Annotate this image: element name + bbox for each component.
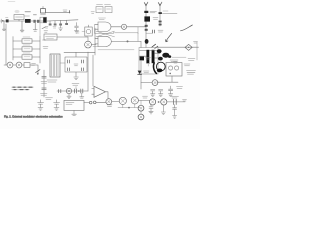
wire: rail A extension down to T1 box <box>145 31 147 47</box>
label: Q2 value <box>93 46 98 48</box>
node: blob at Q13 bottom <box>157 69 163 73</box>
ground: drop at x=35 <box>33 23 37 31</box>
wire: box to Q6 chain <box>84 102 89 104</box>
capacitor C8 on rail A <box>145 29 148 31</box>
capacitor C17 series <box>75 89 77 93</box>
wire: U1B output <box>111 40 141 42</box>
wire: transistor row bus <box>4 64 24 66</box>
label: above U3 <box>170 60 178 61</box>
wire: U3 to lower bus <box>157 76 178 82</box>
label: marks at (44,30) <box>44 31 48 32</box>
wire: U1A output <box>111 26 121 28</box>
label: rail B text <box>153 18 158 20</box>
diode D3 package on rail A <box>144 16 150 21</box>
label: above osc bus <box>72 83 79 85</box>
capacitor C4 with ground <box>59 20 63 30</box>
ground: drop at x=4 <box>2 21 5 30</box>
wire: left vertical rail x=6 <box>5 24 7 65</box>
wire: bias rail B x=160 <box>159 4 161 27</box>
crystal X1 box <box>44 34 57 40</box>
capacitor C11 on rail <box>42 88 46 90</box>
SAW device hatched box <box>50 54 60 77</box>
node A: input terminal <box>0 19 2 23</box>
node: blob on wire <box>2 20 4 22</box>
capacitor C27 + ground under chain <box>149 105 153 114</box>
capacitor C20 + ground at x=163 <box>161 105 165 115</box>
transistor Q8 circled <box>131 97 138 104</box>
op-amp U2 <box>92 86 106 97</box>
label: marks near right edge <box>194 42 198 44</box>
resistor R2 <box>13 37 40 43</box>
label: text right of C28 <box>158 30 163 32</box>
antenna arrow on rail A <box>144 2 148 6</box>
capacitor C6 to ground <box>74 23 78 34</box>
label: handwritten squiggle <box>181 25 193 31</box>
diode D4 vertical <box>138 71 149 75</box>
ground: drop at x=22 <box>20 21 24 32</box>
capacitor C2 on bus <box>49 21 52 26</box>
capacitor C25 + ground bottom left <box>38 100 44 110</box>
label: small marks <box>174 62 178 64</box>
wire: ladder right rail x=40 <box>39 37 41 64</box>
wire: label stub <box>75 86 77 89</box>
capacitor C26 + ground bottom left <box>54 100 60 110</box>
node: junction blob <box>37 73 39 75</box>
node: dark tap on box top rail <box>140 57 144 61</box>
detector U3 box <box>166 63 182 76</box>
wire: X1 output to Q2 <box>57 37 88 41</box>
wire: cross-coupled feedback X <box>96 31 115 37</box>
label: small mark <box>33 14 36 16</box>
trimmer capacitor CT1 <box>41 6 46 13</box>
wire: stub right at y=33 <box>146 32 153 34</box>
node: junction between rings <box>158 101 160 103</box>
SAW filter T1 outline box <box>139 48 158 75</box>
wire: mid vertical rail x=93 <box>92 55 94 86</box>
transistor Q11 ring lower <box>138 105 144 111</box>
wire: to Q6 <box>96 101 106 103</box>
capacitor C16 series <box>59 90 61 93</box>
label: under hatched box <box>47 80 57 82</box>
capacitor C15 bridge LR <box>81 68 83 71</box>
wire: chain continues right <box>167 101 185 103</box>
wire: stub down at x=138 <box>137 27 139 34</box>
wire: U1B lower return <box>98 49 134 51</box>
ground: under C18 <box>80 93 84 98</box>
label: C19 value above <box>172 96 179 98</box>
label: diagonal pen dashes near box corner <box>152 44 158 48</box>
transistor Q2 <box>85 41 92 48</box>
wire: main input bus y=21 <box>1 20 79 21</box>
label: darker specks in text block <box>13 87 32 89</box>
transistor Q4 circled <box>16 62 22 68</box>
ground: bridge bottom <box>74 77 79 80</box>
transistor Q1 <box>121 24 126 29</box>
diode D1 <box>6 18 9 23</box>
ferrite bead FB1 <box>89 101 92 104</box>
label: right of dark tap <box>146 58 151 60</box>
transformer T1 secondary bar <box>152 50 155 63</box>
transistor Q9 ring <box>150 99 156 105</box>
label: text block lower left <box>12 87 33 89</box>
capacitor C12 bridge UL <box>67 60 69 63</box>
node: arrow tick at drop <box>36 70 40 73</box>
wire: emitter drops and tie bar <box>118 104 140 108</box>
label: small tees <box>147 64 150 67</box>
pointer arrow hand-drawn <box>165 33 171 41</box>
label: 3.2 marks <box>107 105 112 107</box>
wire: between lower rings <box>140 111 142 114</box>
wire: vertical to lower rings <box>140 101 142 106</box>
label: end of chain marks <box>183 100 187 101</box>
diode D2 <box>25 16 31 23</box>
label: diagonal dash near x=43 <box>42 27 45 28</box>
transistor Q13 big ring <box>156 62 165 71</box>
capacitor C5 on bus <box>65 20 68 25</box>
label: faint toner smudge top-left <box>15 10 20 13</box>
capacitor C18 series <box>81 89 83 93</box>
inductor L1 box <box>14 15 24 21</box>
node: blob cluster right of T1 <box>157 49 171 60</box>
transistor Q12 ring lower <box>138 114 144 120</box>
node: tie junction <box>128 107 130 109</box>
label: OUT text right mid <box>188 59 195 61</box>
wire: bridge frame <box>65 52 87 76</box>
wire: rail from U1B output into box <box>140 41 142 47</box>
resistor R5 small box <box>24 63 36 68</box>
label: right of U3 <box>184 64 190 66</box>
wire: rail x=44 lower-left <box>43 70 45 97</box>
wire: feedback top run to SAW box <box>115 33 139 42</box>
antenna arrow on rail B <box>158 2 162 6</box>
transistor Q14 <box>152 80 158 86</box>
transistor Q5 <box>66 88 71 93</box>
node: rail B tap with dash <box>159 11 178 14</box>
capacitor C22 + ground <box>151 89 155 96</box>
wire: ladder rail x=13 <box>12 37 14 61</box>
capacitor C7 on rail A <box>145 25 148 27</box>
wire: mid vertical rail x=95 <box>94 28 96 55</box>
wire: output line y=47 right <box>158 46 199 48</box>
capacitor C10 on rail <box>42 76 46 78</box>
ground: under Q5 <box>67 94 71 99</box>
ferrite bead FB2 <box>93 101 96 104</box>
capacitor C19 series in chain <box>173 99 176 104</box>
resistor R4 <box>13 53 40 59</box>
label: text rows far right <box>187 71 196 75</box>
wire: T1 left leads <box>140 51 147 57</box>
wire: bias rail A x=146 <box>145 4 147 32</box>
capacitor C14 bridge LL <box>67 68 69 71</box>
resistor R1 half-filled package <box>40 15 47 23</box>
wire: box left rail down <box>140 61 142 89</box>
oscillator module box bottom <box>64 100 84 115</box>
wire: T1 right leads <box>149 51 160 58</box>
label: equals marks near x=92 <box>91 12 94 14</box>
wire: Q14 left stub <box>141 82 152 84</box>
wire: right edge vertical <box>196 42 198 60</box>
wire: lower osc bus y=91 <box>57 90 88 92</box>
wire: ladder rail stub up <box>39 23 41 37</box>
label: control line text <box>63 10 67 11</box>
label: +V marks right of rail <box>43 40 49 48</box>
capacitor C3 on bus <box>53 21 57 28</box>
capacitor C28 on rail A extension <box>153 30 155 33</box>
wire: top scan edge mark <box>8 1 15 3</box>
svg-text:Fig. 2. External modulator ele: Fig. 2. External modulator electronics s… <box>4 114 63 118</box>
node: junction on U1B output <box>127 40 129 42</box>
capacitor C21 + ground at x=174 <box>173 105 177 119</box>
transistor Q3 circled <box>7 62 13 68</box>
label: value marks under R1 <box>45 27 48 29</box>
wire: Q6 to Q7 <box>112 100 120 102</box>
connector J1 label boxes top middle <box>96 4 112 12</box>
capacitor C23 + ground <box>159 89 163 96</box>
capacitor C9 on rail B <box>159 21 162 26</box>
wire: U2 output <box>106 92 109 99</box>
capacitor C1 pair <box>33 20 39 23</box>
wire: bridge top feed <box>64 51 95 53</box>
label: rail A tap text <box>150 11 157 13</box>
transistor Q7 circled <box>119 97 126 104</box>
wire: hatched box to bridge stub <box>60 62 65 64</box>
transistor Q6 <box>106 99 112 105</box>
gate U1B <box>95 36 111 46</box>
capacitor C13 bridge UR <box>81 60 83 63</box>
wire: Q1 to rail <box>127 26 146 28</box>
transformer T1 primary bar <box>146 50 149 63</box>
label: marks right of caps <box>177 87 183 89</box>
wire: row to drop at x=38 <box>30 65 38 74</box>
node: junction <box>78 90 80 92</box>
wire: Q2 output <box>91 44 96 46</box>
gate U1A <box>95 18 111 32</box>
label: above chain <box>143 96 148 98</box>
label: dash above chain <box>25 11 30 13</box>
wire: mid vertical rail x=88 <box>87 52 89 91</box>
mixer diamond <box>185 44 192 50</box>
wire: upper control line y=13 <box>45 11 70 13</box>
node: rail A tap <box>144 11 148 13</box>
wire: U1A feedback loop <box>95 24 114 33</box>
resistor R3 <box>13 45 40 51</box>
crystal Y1 in can <box>85 25 92 36</box>
label: C marks above wire <box>75 32 85 34</box>
label: between bottom caps <box>46 98 53 100</box>
inductor hook below T1 <box>153 63 156 74</box>
wire: stub y=57 <box>172 56 186 58</box>
label: C10 value <box>41 82 47 84</box>
label: C11 value <box>41 94 48 96</box>
transistor Q10 ring <box>161 99 167 105</box>
label: bridge centre marks <box>74 64 78 66</box>
node: dark blob on rail above box <box>145 39 149 44</box>
wire: Q8 to output chain <box>138 99 149 101</box>
capacitor C24 + ground <box>168 86 172 96</box>
